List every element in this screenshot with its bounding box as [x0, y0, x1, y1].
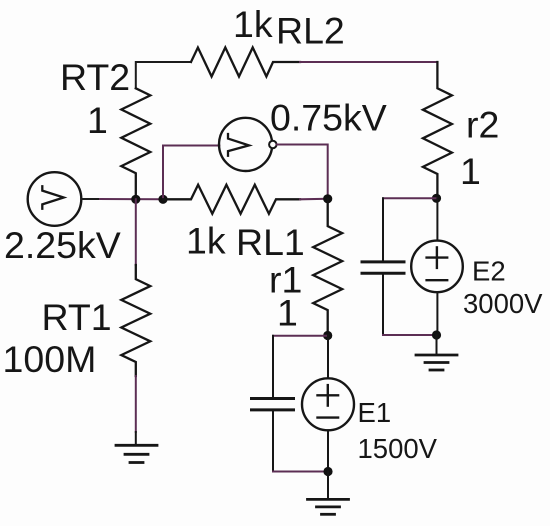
node E junction: [323, 331, 332, 340]
ground GND3: [327, 472, 329, 500]
svg-text:RL1: RL1: [236, 221, 305, 263]
node F junction: [432, 330, 441, 339]
voltage source E2: [411, 241, 463, 293]
svg-text:100M: 100M: [3, 338, 97, 380]
node C junction: [323, 194, 332, 203]
svg-text:0.75kV: 0.75kV: [270, 97, 387, 139]
wire node E to capacitor C1: [273, 335, 328, 337]
wire RT1 to ground: [135, 376, 137, 432]
resistor RL2: [191, 48, 300, 77]
svg-text:1: 1: [87, 99, 108, 141]
svg-text:RL2: RL2: [276, 10, 345, 52]
svg-text:RT1: RT1: [42, 296, 112, 338]
wire node D to capacitor C2: [383, 197, 437, 199]
capacitor C1: [272, 336, 274, 397]
node D junction: [432, 194, 441, 203]
resistor RT2: [121, 88, 150, 199]
wire RL2 to r2: [300, 61, 437, 63]
wire VM2 bubble to node C: [277, 145, 328, 199]
resistor r2: [423, 62, 452, 198]
svg-text:1: 1: [277, 292, 298, 334]
voltage source E1: [302, 378, 354, 430]
svg-text:1k: 1k: [186, 220, 226, 262]
ground GND2: [436, 335, 438, 355]
voltage pin VM1 arrow: [42, 186, 63, 208]
voltage pin VM2 circle: [219, 118, 272, 171]
wire capacitor C2 to node F: [383, 334, 437, 336]
svg-text:2.25kV: 2.25kV: [4, 224, 121, 266]
node B junction: [158, 195, 167, 204]
svg-text:1: 1: [460, 150, 481, 192]
resistor r1: [313, 199, 342, 336]
wire node B to VM2: [163, 146, 219, 200]
node G junction: [323, 467, 332, 476]
voltage pin VM1 circle: [28, 172, 82, 226]
svg-text:1500V: 1500V: [358, 433, 438, 464]
voltage pin VM2 arrow: [228, 134, 249, 156]
wire VM1 to node A: [81, 198, 100, 200]
wire RT2 top corner to RL2: [136, 62, 191, 88]
svg-text:3000V: 3000V: [463, 288, 543, 319]
ground GND1: [135, 432, 137, 445]
svg-text:RT2: RT2: [60, 56, 130, 98]
wire capacitor C1 to node G: [273, 471, 328, 473]
svg-text:r2: r2: [466, 104, 499, 146]
svg-text:1k: 1k: [233, 3, 273, 45]
svg-text:E1: E1: [358, 397, 392, 428]
node A junction: [131, 195, 140, 204]
resistor RL1: [163, 185, 300, 214]
wire RL1 to node C: [300, 198, 328, 201]
wire node A to RT1: [135, 199, 137, 265]
resistor RT1: [121, 265, 150, 376]
svg-text:E2: E2: [472, 256, 506, 287]
voltage pin VM2 output bubble: [269, 141, 276, 148]
capacitor C2: [382, 198, 384, 260]
